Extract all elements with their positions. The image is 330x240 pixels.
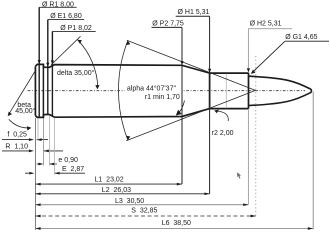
- svg-text:r2 2,00: r2 2,00: [212, 130, 234, 137]
- svg-text:R 1,10: R 1,10: [5, 144, 28, 151]
- beta arrow: [8, 112, 12, 117]
- extension line tip L6: [312, 92, 314, 230]
- svg-text:L1 23,02: L1 23,02: [95, 177, 124, 184]
- svg-text:r1 min 1,70: r1 min 1,70: [145, 94, 180, 101]
- case outline: [35, 64, 248, 117]
- delta ramp extension: [51, 36, 81, 65]
- svg-text:alpha 44°07'37": alpha 44°07'37": [127, 85, 177, 93]
- beta arc arrow: [27, 126, 32, 130]
- svg-text:delta 35,00°: delta 35,00°: [57, 69, 95, 77]
- beta extension line: [8, 71, 35, 115]
- svg-text:L6 38,50: L6 38,50: [162, 220, 191, 227]
- svg-text:E 2,87: E 2,87: [62, 166, 84, 173]
- rim back face edge: [42, 65, 44, 118]
- delta arc arrow upper: [78, 40, 82, 44]
- svg-text:e 0,90: e 0,90: [58, 157, 78, 164]
- extension line groove end: [48, 115, 50, 165]
- svg-text:L3 30,50: L3 30,50: [115, 198, 144, 205]
- mouse cursor: [237, 172, 241, 178]
- svg-text:Ø H2 5,31: Ø H2 5,31: [250, 21, 282, 28]
- extension line rim back: [42, 118, 44, 165]
- beta arc: [9, 119, 30, 128]
- shoulder cone extension lower: [126, 90, 255, 140]
- delta arc: [78, 40, 98, 88]
- svg-text:S 32,85: S 32,85: [131, 208, 157, 215]
- alpha arc arrow lower: [126, 136, 130, 141]
- svg-text:f 0,25: f 0,25: [7, 132, 27, 139]
- svg-text:45,00°: 45,00°: [15, 107, 36, 115]
- svg-text:L2 26,03: L2 26,03: [102, 187, 131, 194]
- svg-text:Ø G1 4,65: Ø G1 4,65: [285, 34, 317, 41]
- hidden bullet base line in neck: [225, 74, 227, 108]
- delta arc arrow lower: [95, 85, 99, 89]
- alpha arc arrow upper: [126, 41, 130, 46]
- alpha angle arc: [118, 41, 127, 141]
- r2 leader: [217, 111, 228, 121]
- svg-text:Ø P2 7,75: Ø P2 7,75: [152, 20, 184, 27]
- extension line base: [34, 118, 36, 230]
- extension line S dotted: [255, 56, 257, 216]
- bullet ogive: [249, 76, 312, 105]
- svg-text:Ø H1 5,31: Ø H1 5,31: [178, 9, 210, 16]
- shoulder cone extension upper: [127, 40, 256, 90]
- extension line body start: [54, 118, 56, 175]
- extension line bevel end: [37, 118, 39, 141]
- svg-text:Ø P1 8,02: Ø P1 8,02: [60, 25, 92, 32]
- r1 leader: [176, 101, 184, 116]
- svg-text:Ø E1 6,80: Ø E1 6,80: [50, 13, 82, 20]
- centerline axis: [28, 90, 306, 92]
- halo under alpha labels: [125, 84, 184, 101]
